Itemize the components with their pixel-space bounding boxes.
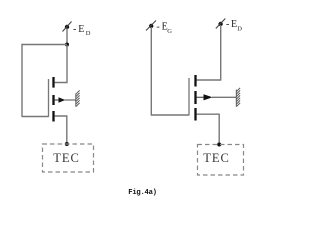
source bar [194,108,196,121]
gate line [188,78,190,116]
svg-text:E: E [78,24,84,35]
supply terminal -E_D (right circuit) [216,19,226,29]
TEC block (right, dashed box) [198,145,244,176]
wire to gate of Q1 [22,116,49,118]
svg-text:Fig.4a): Fig.4a) [128,189,156,197]
substrate bar [52,95,54,105]
drain bar [52,77,54,88]
svg-text:-: - [73,24,76,35]
source bar [52,111,54,122]
chassis ground (left) [76,90,80,106]
label -E_G (right circuit) [156,22,172,35]
node: junction dot at TEC1 top [65,142,69,146]
svg-text:D: D [237,26,242,33]
gate line [48,79,50,117]
wire substrate lead of Q1 to chassis ground [65,99,76,101]
svg-text:-: - [156,22,159,33]
node: drain/gate junction dot (left) [65,43,69,47]
transistor Q2 (p-channel MOSFET, right) [189,75,213,121]
supply terminal -E_G (right circuit) [146,21,156,31]
drain bar [194,75,196,87]
label -E_D (left circuit) [73,24,91,37]
transistor Q1 (p-channel MOSFET, left) [49,77,66,122]
supply terminal -E_D (left circuit) [63,22,72,32]
node: junction dot at TEC2 top [217,143,221,147]
wire source lead of Q2 down to TEC [197,114,220,144]
substrate arrow [59,97,66,102]
wire from -E_D terminal down to drain of Q2 [197,25,221,80]
label -E_D (right circuit) [226,19,242,33]
svg-text:G: G [167,28,172,35]
TEC block (left, dashed box) [43,144,94,172]
wire substrate lead of Q2 to chassis ground [212,96,236,98]
wire from -E_D terminal down to drain node [66,28,68,45]
substrate bar [194,91,196,104]
chassis ground (right) [236,88,240,107]
wire source lead of Q1 down to TEC [55,116,67,144]
wire from -E_G down and right to gate of Q2 [151,27,189,115]
svg-text:D: D [86,30,91,37]
svg-text:TEC: TEC [203,151,230,165]
svg-text:E: E [231,19,237,30]
substrate arrow [204,94,213,100]
svg-text:-: - [226,19,229,30]
wire top horizontal (gate feedback, left) [22,44,68,46]
svg-text:TEC: TEC [53,151,80,165]
wire drain lead of Q1 [55,45,68,83]
wire left rail vertical (gate feedback, left) [21,44,23,117]
